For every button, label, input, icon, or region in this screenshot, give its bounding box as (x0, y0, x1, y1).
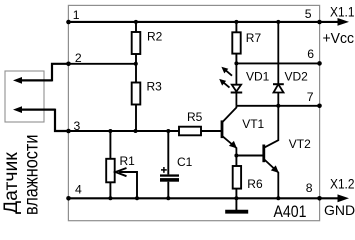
junction node R3 bottom (134, 129, 138, 133)
resistor R2 (132, 22, 141, 64)
pin 8 terminal (317, 196, 322, 201)
sensor arrow lower (13, 106, 55, 113)
junction node C1 top (166, 129, 170, 133)
svg-text:R5: R5 (187, 110, 203, 124)
junction node R1 bottom rail (108, 196, 112, 200)
svg-text:R1: R1 (120, 154, 136, 168)
wire pin7 line (236, 105, 319, 107)
junction node R2 R3 pin2 (134, 62, 138, 66)
pin 2 terminal (66, 62, 71, 67)
junction node R1 top (108, 129, 112, 133)
svg-text:VT1: VT1 (242, 117, 264, 131)
junction node R2 top rail (134, 20, 138, 24)
svg-text:R7: R7 (246, 31, 262, 45)
svg-text:X1.1: X1.1 (330, 3, 355, 19)
junction node VT1 emitter R6 (234, 154, 238, 158)
svg-text:+Vcc: +Vcc (323, 30, 355, 47)
junction node VD2 top rail (276, 20, 280, 24)
R1 wiper arrow (116, 168, 138, 198)
resistor R5 (179, 127, 201, 136)
C1 plus sign (161, 167, 167, 173)
svg-text:R2: R2 (147, 30, 163, 44)
svg-text:VT2: VT2 (289, 137, 311, 151)
wire bottom rail pin4 to pin8 (69, 197, 341, 199)
sensor arrow upper (13, 77, 52, 84)
VT1 emitter arrowhead (229, 141, 237, 149)
transistor VT2 (264, 106, 279, 199)
pin 4 terminal (66, 196, 71, 201)
junction node VT2 emitter rail (276, 196, 280, 200)
VT2 emitter arrowhead (271, 165, 279, 173)
LED VD1 (231, 63, 243, 105)
sensor box (5, 71, 44, 122)
ground symbol (225, 198, 248, 211)
svg-text:4: 4 (75, 182, 82, 196)
svg-text:GND: GND (324, 202, 355, 218)
pin 7 terminal (317, 104, 322, 109)
wire pin6 line (236, 62, 319, 64)
+Vcc arrowhead (338, 18, 350, 26)
junction node R7 VD1 pin6 (234, 61, 238, 65)
wire sensor upper to pin 2 (52, 64, 69, 82)
svg-text:R6: R6 (247, 177, 263, 191)
svg-text:7: 7 (307, 90, 314, 104)
svg-text:8: 8 (306, 181, 313, 195)
junction node R1 wiper rail (135, 196, 139, 200)
pin 3 terminal (66, 129, 71, 134)
wire pin3 base line (69, 130, 180, 132)
svg-text:X1.2: X1.2 (330, 175, 355, 191)
svg-text:3: 3 (74, 119, 81, 133)
svg-text:1: 1 (73, 8, 80, 22)
junction node R7 top rail (234, 20, 238, 24)
wire top rail pin1 to pin5 (69, 21, 341, 23)
wire R5 to VT1 base (201, 130, 221, 132)
VD1 emission arrows (219, 67, 232, 88)
svg-text:влажности: влажности (21, 135, 42, 216)
svg-text:A401: A401 (274, 203, 307, 221)
resistor R6 (233, 156, 241, 199)
junction node R6 ground rail (234, 196, 238, 200)
module outline box A401 (68, 5, 319, 220)
diode VD2 (273, 22, 284, 106)
svg-text:2: 2 (75, 51, 82, 65)
transistor VT1 (222, 106, 236, 156)
junction node VD2 pin7 (276, 104, 280, 108)
svg-text:C1: C1 (177, 155, 193, 169)
wire pin2 to R2/R3 node (69, 63, 136, 65)
svg-text:VD1: VD1 (246, 70, 270, 84)
wire sensor lower to pin 3 (55, 109, 69, 131)
svg-text:R3: R3 (147, 80, 163, 94)
svg-text:Датчик: Датчик (1, 152, 22, 214)
wire VT1 emitter node to VT2 base (236, 155, 262, 157)
resistor R7 (232, 22, 240, 64)
pin 6 terminal (317, 61, 322, 66)
resistor R3 (132, 64, 141, 131)
junction node C1 bottom rail (166, 196, 170, 200)
svg-text:VD2: VD2 (285, 70, 309, 84)
GND arrowhead (338, 194, 350, 202)
svg-text:6: 6 (307, 47, 314, 61)
pin 5 terminal (317, 20, 322, 25)
capacitor C1 (167, 131, 169, 198)
pin 1 terminal (66, 20, 71, 25)
potentiometer R1 (106, 131, 115, 198)
svg-text:5: 5 (305, 7, 312, 21)
